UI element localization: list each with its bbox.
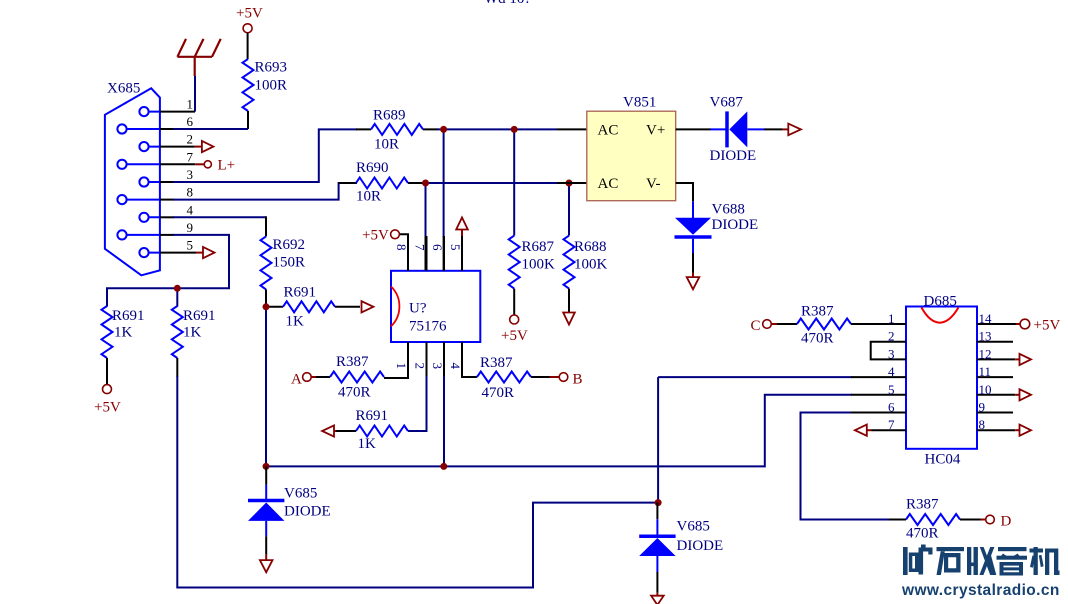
svg-text:7: 7 — [187, 149, 194, 164]
svg-text:R691: R691 — [356, 408, 389, 424]
svg-text:3: 3 — [430, 363, 445, 370]
inverter D685 HC04 — [906, 294, 977, 468]
svg-text:+5V: +5V — [1034, 318, 1061, 334]
svg-text:AC: AC — [598, 176, 619, 192]
svg-text:8: 8 — [979, 417, 986, 432]
junction R691 second top — [174, 285, 181, 292]
svg-text:D685: D685 — [924, 294, 957, 310]
wire riser R689 junction to U pin6 — [443, 129, 445, 271]
svg-text:5: 5 — [187, 238, 194, 253]
junction R689 output — [440, 126, 447, 133]
svg-text:9: 9 — [979, 400, 986, 415]
svg-text:+5V: +5V — [94, 400, 121, 416]
svg-text:1K: 1K — [286, 314, 305, 330]
pin 12 of D685 with right arrow — [977, 354, 1031, 365]
svg-text:DIODE: DIODE — [712, 217, 759, 233]
pin numbers 8 7 6 5 — [394, 244, 463, 251]
port A with resistor R387 470R — [291, 354, 384, 401]
svg-text:470R: 470R — [338, 385, 371, 401]
resistor R687 100K — [509, 129, 555, 315]
svg-text:7: 7 — [888, 417, 895, 432]
svg-text:A: A — [291, 372, 302, 388]
wire +5V to R693 — [247, 33, 249, 59]
power +5V below R687 — [501, 315, 528, 344]
svg-text:DIODE: DIODE — [677, 538, 724, 554]
diode V685 (left) — [248, 466, 331, 536]
wire ground bus — [266, 465, 765, 467]
resistor R693 100R — [243, 59, 288, 111]
junction R690 output — [422, 180, 429, 187]
wire R689 out to V851 — [437, 128, 557, 130]
svg-text:R387: R387 — [336, 354, 369, 370]
port C with resistor R387 470R — [751, 304, 852, 347]
svg-text:150R: 150R — [273, 255, 306, 271]
svg-text:470R: 470R — [482, 385, 515, 401]
svg-text:C: C — [751, 318, 761, 334]
rectifier V851 — [557, 95, 676, 201]
svg-text:R387: R387 — [906, 497, 939, 513]
svg-text:R689: R689 — [373, 108, 406, 124]
pin 4 of D685 — [851, 376, 906, 378]
svg-text:Wd 10?: Wd 10? — [484, 0, 531, 7]
pin 1 of U1 — [384, 342, 408, 378]
power +5V below R691 left — [94, 385, 121, 416]
pin 7 of D685 with left arrow — [855, 425, 906, 436]
svg-text:13: 13 — [979, 329, 992, 344]
pin 4 of U1 — [462, 342, 477, 377]
wire pin3 net to R689 — [160, 129, 357, 182]
svg-text:1: 1 — [394, 363, 409, 370]
port arrow pin5 — [160, 247, 215, 258]
svg-text:5: 5 — [448, 244, 463, 251]
svg-text:V685: V685 — [284, 486, 317, 502]
svg-text:3: 3 — [888, 346, 895, 361]
diode V685 (right) — [639, 503, 723, 572]
svg-text:8: 8 — [394, 244, 409, 251]
svg-text:R691: R691 — [284, 285, 317, 301]
pin 13 of D685 — [977, 341, 1013, 343]
port L+ pin7 — [160, 158, 235, 174]
svg-text:R687: R687 — [522, 239, 555, 255]
svg-text:R691: R691 — [112, 308, 145, 324]
junction R688 top — [566, 180, 573, 187]
junction R692/R691 — [263, 303, 270, 310]
resistor R688 100K — [563, 183, 607, 325]
svg-text:1K: 1K — [183, 325, 202, 341]
pin 5 of D685 — [851, 394, 906, 396]
svg-text:4: 4 — [888, 364, 895, 379]
pin numbers left of D685 — [888, 311, 895, 432]
svg-text:DIODE: DIODE — [710, 148, 757, 164]
svg-text:10R: 10R — [356, 189, 381, 205]
pin 1 of D685 — [851, 323, 906, 325]
svg-text:R387: R387 — [480, 355, 513, 371]
port arrow V687 out — [764, 124, 801, 136]
svg-text:www.crystalradio.cn: www.crystalradio.cn — [901, 582, 1060, 599]
svg-text:12: 12 — [979, 346, 992, 361]
svg-text:14: 14 — [979, 311, 993, 326]
svg-text:6: 6 — [187, 114, 194, 129]
wire R691 second down around bottom to V685 node — [177, 376, 658, 588]
svg-text:10R: 10R — [374, 137, 399, 153]
port arrow pin2 — [160, 141, 213, 152]
svg-text:R688: R688 — [574, 239, 607, 255]
svg-text:6: 6 — [888, 400, 895, 415]
svg-text:+5V: +5V — [236, 6, 263, 22]
diode V687 — [676, 95, 765, 165]
svg-text:R692: R692 — [273, 237, 306, 253]
svg-text:9: 9 — [187, 220, 194, 235]
svg-text:8: 8 — [187, 185, 194, 200]
pin numbers 1 2 3 4 — [394, 363, 463, 370]
svg-text:R693: R693 — [255, 60, 288, 76]
svg-text:470R: 470R — [801, 331, 834, 347]
svg-text:1: 1 — [888, 311, 895, 326]
svg-text:3: 3 — [187, 167, 194, 182]
logo 矿石收音机 — [903, 545, 1060, 576]
pin 7 of U1 — [426, 236, 428, 271]
svg-text:5: 5 — [888, 382, 895, 397]
wire R693 bottom to pin6 net — [247, 111, 249, 129]
svg-text:4: 4 — [187, 202, 194, 217]
wire pin4 to R692 — [160, 216, 266, 236]
svg-text:V687: V687 — [710, 95, 744, 111]
svg-text:L+: L+ — [218, 158, 236, 174]
svg-text:100K: 100K — [574, 257, 608, 273]
pin 11 of D685 — [977, 376, 1013, 378]
svg-text:+5V: +5V — [501, 328, 528, 344]
op-amp U1 75176 — [391, 271, 480, 342]
pin 10 of D685 with right arrow — [977, 389, 1031, 400]
wire pin8 net to R690 — [160, 183, 357, 200]
svg-text:HC04: HC04 — [925, 452, 961, 468]
resistor R689 10R — [356, 108, 438, 153]
svg-text:2: 2 — [187, 132, 194, 147]
svg-text:DIODE: DIODE — [284, 504, 331, 520]
svg-text:7: 7 — [413, 244, 428, 251]
svg-text:AC: AC — [598, 123, 619, 139]
svg-text:X685: X685 — [107, 81, 140, 97]
diode V688 — [675, 183, 759, 253]
wire riser R690 junction to U pin7 — [425, 183, 427, 271]
resistor R691 1K (fourth, with left arrow) — [322, 408, 408, 452]
pin 2 of U1 — [408, 342, 427, 431]
wire pin6 row — [160, 128, 248, 130]
svg-text:V688: V688 — [712, 202, 745, 218]
svg-text:100K: 100K — [522, 257, 556, 273]
pin 3 of U1 — [443, 342, 445, 466]
svg-text:D: D — [1001, 514, 1012, 530]
svg-text:4: 4 — [448, 363, 463, 370]
wire R690 out to V851 — [422, 182, 557, 184]
wire pin6 to R387 D net — [801, 413, 890, 520]
resistor R691 1K (third, with right arrow) — [266, 285, 373, 330]
svg-text:1: 1 — [187, 97, 194, 112]
svg-text:V685: V685 — [677, 519, 710, 535]
port down arrow under V688 — [687, 253, 700, 289]
pins 2-3 loop of D685 — [871, 342, 906, 360]
pin 5 of U1 with up port — [456, 218, 468, 272]
resistor R691 1K (left) — [102, 306, 145, 385]
svg-text:2: 2 — [413, 363, 428, 370]
svg-text:B: B — [573, 372, 583, 388]
pin 8 of U1 with +5V — [362, 228, 408, 272]
wire pin9 net — [107, 235, 229, 307]
pin 14 of D685 with +5V — [977, 318, 1060, 334]
svg-text:R690: R690 — [356, 160, 389, 176]
svg-text:V851: V851 — [623, 95, 656, 111]
pin numbers right of D685 — [979, 311, 993, 432]
svg-text:10: 10 — [979, 382, 992, 397]
resistor R690 10R — [339, 160, 423, 205]
connector X685 DB9 — [105, 81, 160, 276]
svg-text:6: 6 — [430, 244, 445, 251]
svg-text:+5V: +5V — [362, 228, 389, 244]
svg-text:R691: R691 — [183, 308, 216, 324]
svg-text:1K: 1K — [114, 325, 133, 341]
port B with resistor R387 470R — [477, 355, 583, 401]
svg-text:1K: 1K — [358, 436, 377, 452]
pin 6 of U1 — [443, 236, 445, 271]
antenna — [177, 39, 220, 76]
pin 6 of D685 — [851, 412, 906, 414]
svg-text:U?: U? — [409, 301, 427, 317]
resistor R691 1K (second) — [172, 306, 216, 377]
pin 8 of D685 with right arrow — [977, 425, 1031, 436]
svg-text:100R: 100R — [255, 78, 288, 94]
wire to HC04 pin4 — [658, 376, 852, 378]
wire R692 junction down to bus — [265, 307, 267, 467]
svg-text:V-: V- — [646, 176, 660, 192]
svg-text:R387: R387 — [801, 304, 834, 320]
wire bus to HC04 pin5 — [765, 395, 852, 468]
svg-text:11: 11 — [979, 364, 992, 379]
port down arrow under V685 left — [260, 536, 273, 572]
svg-text:75176: 75176 — [409, 319, 447, 335]
wire antenna stem — [194, 76, 196, 112]
resistor R692 150R — [261, 236, 306, 306]
wire pin1 to antenna — [160, 111, 195, 113]
wire HC04 pin4 net vertical — [657, 377, 659, 503]
junction bus left — [263, 463, 270, 470]
port D with resistor R387 470R — [889, 497, 1012, 542]
svg-text:V+: V+ — [646, 123, 665, 139]
svg-text:2: 2 — [888, 329, 895, 344]
power +5V top — [236, 6, 263, 33]
junction R687 top — [511, 126, 518, 133]
junction V685 right top — [655, 499, 662, 506]
junction bus pin3 — [440, 463, 447, 470]
pin 9 of D685 — [977, 412, 1013, 414]
svg-text:470R: 470R — [906, 526, 939, 542]
port down arrow under V685 right — [651, 572, 664, 604]
